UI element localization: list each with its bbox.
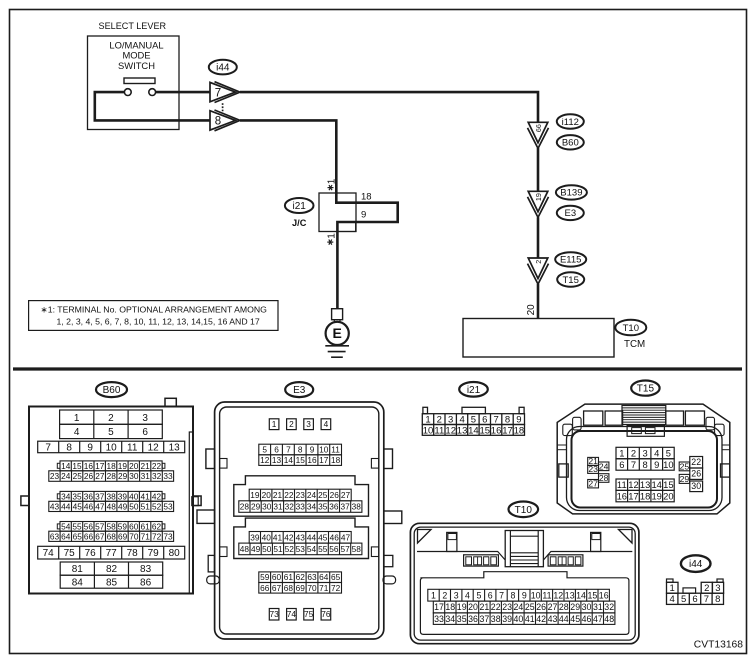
svg-text:55: 55	[318, 544, 328, 554]
svg-text:T15: T15	[637, 384, 655, 395]
svg-text:63: 63	[307, 572, 317, 582]
svg-text:11: 11	[434, 425, 444, 436]
svg-text:4: 4	[74, 427, 80, 438]
svg-text:5: 5	[681, 594, 686, 605]
svg-text:42: 42	[284, 532, 294, 542]
svg-text:74: 74	[43, 548, 55, 559]
svg-text:31: 31	[273, 502, 283, 512]
svg-text:27: 27	[548, 602, 558, 612]
svg-text:26: 26	[536, 602, 546, 612]
svg-text:8: 8	[298, 445, 303, 455]
svg-text:21: 21	[273, 490, 283, 500]
svg-text:10: 10	[663, 459, 673, 470]
svg-text:1: 1	[326, 233, 337, 239]
svg-text:59: 59	[118, 521, 128, 531]
svg-text:70: 70	[307, 583, 317, 593]
svg-text:64: 64	[61, 531, 71, 541]
svg-text:5: 5	[262, 445, 267, 455]
svg-text:7: 7	[499, 590, 504, 600]
svg-text:SELECT LEVER: SELECT LEVER	[99, 21, 167, 31]
svg-text:23: 23	[588, 464, 598, 474]
svg-text:29: 29	[680, 474, 690, 484]
svg-text:8: 8	[715, 594, 720, 605]
svg-text:8: 8	[215, 116, 221, 128]
svg-text:45: 45	[73, 501, 83, 511]
svg-text:4: 4	[465, 590, 470, 600]
svg-text:18: 18	[640, 491, 650, 502]
svg-text:B60: B60	[103, 385, 121, 396]
svg-text:8: 8	[66, 443, 72, 454]
svg-text:24: 24	[307, 490, 317, 500]
svg-text:4: 4	[654, 447, 659, 458]
svg-text:38: 38	[352, 502, 362, 512]
svg-text:20: 20	[262, 490, 272, 500]
svg-text:2: 2	[442, 590, 447, 600]
svg-text:9: 9	[310, 445, 315, 455]
svg-text:17: 17	[95, 461, 105, 471]
svg-text:1: 1	[272, 419, 277, 429]
svg-text:42: 42	[536, 614, 546, 624]
svg-text:57: 57	[95, 521, 105, 531]
svg-text:62: 62	[152, 521, 162, 531]
svg-text:E3: E3	[564, 208, 576, 219]
svg-text:31: 31	[141, 471, 151, 481]
svg-text:39: 39	[250, 532, 260, 542]
svg-text:54: 54	[307, 544, 317, 554]
svg-text:75: 75	[304, 609, 314, 619]
svg-text:34: 34	[307, 502, 317, 512]
svg-text:15: 15	[588, 590, 598, 600]
svg-text:82: 82	[106, 564, 118, 575]
svg-text:43: 43	[548, 614, 558, 624]
svg-text:2: 2	[108, 413, 114, 424]
svg-text:67: 67	[95, 531, 105, 541]
svg-text:J/C: J/C	[292, 218, 307, 228]
svg-text:34: 34	[445, 614, 455, 624]
svg-text:36: 36	[468, 614, 478, 624]
svg-text:47: 47	[95, 501, 105, 511]
svg-text:48: 48	[240, 544, 250, 554]
svg-text:42: 42	[152, 491, 162, 501]
svg-text:TCM: TCM	[624, 339, 645, 350]
svg-text:35: 35	[72, 491, 82, 501]
svg-text:26: 26	[84, 471, 94, 481]
svg-text:41: 41	[525, 614, 535, 624]
svg-text:17: 17	[319, 455, 329, 465]
svg-text:4: 4	[670, 594, 675, 605]
svg-text:12: 12	[628, 479, 638, 490]
svg-text:76: 76	[85, 548, 97, 559]
svg-text:19: 19	[250, 490, 260, 500]
svg-text:50: 50	[129, 501, 139, 511]
svg-text:44: 44	[559, 614, 569, 624]
svg-text:61: 61	[284, 572, 294, 582]
svg-text:10: 10	[531, 590, 541, 600]
svg-text:26: 26	[330, 490, 340, 500]
svg-text:71: 71	[141, 531, 151, 541]
svg-text:22: 22	[152, 461, 162, 471]
svg-text:46: 46	[330, 532, 340, 542]
svg-text:52: 52	[285, 544, 295, 554]
svg-text:25: 25	[680, 461, 690, 471]
svg-text:11: 11	[542, 590, 551, 600]
svg-text:44: 44	[307, 532, 317, 542]
svg-text:3: 3	[306, 419, 311, 429]
svg-text:39: 39	[502, 614, 512, 624]
svg-text:∗1: TERMINAL No. OPTIONAL ARRA: ∗1: TERMINAL No. OPTIONAL ARRANGEMENT AM…	[41, 304, 268, 314]
svg-text:73: 73	[269, 609, 279, 619]
svg-text:B60: B60	[562, 138, 579, 149]
svg-text:18: 18	[361, 192, 372, 203]
svg-text:83: 83	[140, 564, 152, 575]
svg-text:68: 68	[107, 531, 117, 541]
svg-text:6: 6	[619, 459, 624, 470]
svg-text:6: 6	[142, 427, 148, 438]
svg-text:30: 30	[691, 481, 701, 491]
svg-text:3: 3	[642, 447, 647, 458]
svg-text:17: 17	[502, 425, 513, 436]
svg-text:9: 9	[361, 210, 366, 221]
svg-text:2: 2	[704, 583, 709, 594]
svg-text:14: 14	[284, 455, 294, 465]
svg-text:T10: T10	[515, 505, 533, 516]
svg-text:9: 9	[522, 590, 527, 600]
svg-text:22: 22	[284, 490, 294, 500]
svg-text:56: 56	[84, 521, 94, 531]
svg-text:9: 9	[87, 443, 93, 454]
svg-text:32: 32	[285, 502, 295, 512]
svg-text:15: 15	[72, 461, 82, 471]
svg-text:17: 17	[628, 491, 638, 502]
svg-text:1: 1	[619, 447, 624, 458]
svg-text:14: 14	[468, 425, 479, 436]
svg-text:18: 18	[106, 461, 116, 471]
svg-text:71: 71	[319, 583, 329, 593]
svg-text:14: 14	[651, 479, 661, 490]
svg-text:13: 13	[272, 455, 282, 465]
svg-text:44: 44	[61, 501, 71, 511]
svg-text:48: 48	[604, 614, 614, 624]
svg-text:35: 35	[457, 614, 467, 624]
svg-text:32: 32	[604, 602, 614, 612]
svg-text:16: 16	[307, 455, 317, 465]
svg-text:13: 13	[640, 479, 650, 490]
svg-text:14: 14	[61, 461, 71, 471]
svg-text:41: 41	[140, 491, 150, 501]
svg-text:23: 23	[50, 471, 60, 481]
svg-text:3: 3	[454, 590, 459, 600]
svg-text:11: 11	[127, 443, 138, 454]
svg-text:49: 49	[118, 501, 128, 511]
svg-text:37: 37	[480, 614, 490, 624]
svg-text:16: 16	[84, 461, 94, 471]
svg-text:7: 7	[45, 443, 51, 454]
svg-text:50: 50	[262, 544, 272, 554]
svg-text:20: 20	[468, 602, 478, 612]
svg-text:25: 25	[525, 602, 535, 612]
svg-text:28: 28	[107, 471, 117, 481]
svg-text:65: 65	[331, 572, 341, 582]
svg-text:3: 3	[142, 413, 148, 424]
svg-text:38: 38	[491, 614, 501, 624]
svg-text:70: 70	[129, 531, 139, 541]
svg-text:37: 37	[95, 491, 105, 501]
svg-text:13: 13	[169, 443, 181, 454]
svg-text:i44: i44	[216, 63, 230, 74]
svg-text:6: 6	[692, 594, 697, 605]
svg-text:15: 15	[480, 425, 491, 436]
svg-text:28: 28	[240, 502, 250, 512]
svg-text:85: 85	[106, 577, 118, 588]
svg-text:E115: E115	[560, 255, 581, 266]
svg-text:i112: i112	[562, 117, 579, 128]
svg-text:i21: i21	[467, 385, 481, 396]
svg-text:31: 31	[593, 602, 603, 612]
svg-text:47: 47	[593, 614, 603, 624]
svg-text:54: 54	[61, 521, 71, 531]
svg-text:33: 33	[434, 614, 444, 624]
svg-text:25: 25	[318, 490, 328, 500]
svg-text:5: 5	[476, 590, 481, 600]
svg-text:30: 30	[582, 602, 592, 612]
svg-text:24: 24	[514, 602, 524, 612]
svg-text:23: 23	[502, 602, 512, 612]
svg-text:33: 33	[163, 471, 173, 481]
svg-text:i21: i21	[293, 201, 307, 212]
svg-text:6: 6	[488, 590, 493, 600]
svg-text:78: 78	[127, 548, 139, 559]
svg-text:69: 69	[118, 531, 128, 541]
svg-text:7: 7	[631, 459, 636, 470]
svg-text:36: 36	[329, 502, 339, 512]
svg-text:23: 23	[296, 490, 306, 500]
svg-text:61: 61	[140, 521, 150, 531]
svg-text:7: 7	[215, 87, 221, 99]
svg-text:72: 72	[152, 531, 162, 541]
svg-text:13: 13	[565, 590, 575, 600]
svg-text:13: 13	[457, 425, 468, 436]
svg-text:45: 45	[570, 614, 580, 624]
svg-text:T15: T15	[563, 275, 579, 286]
svg-text:80: 80	[169, 548, 181, 559]
svg-text:1: 1	[670, 583, 675, 594]
svg-text:10: 10	[106, 443, 118, 454]
svg-text:i44: i44	[689, 559, 703, 570]
svg-text:12: 12	[260, 455, 270, 465]
svg-text:55: 55	[72, 521, 82, 531]
svg-text:77: 77	[106, 548, 118, 559]
svg-text:16: 16	[599, 590, 609, 600]
svg-text:68: 68	[284, 583, 294, 593]
svg-text:11: 11	[331, 445, 340, 455]
svg-text:17: 17	[434, 602, 444, 612]
svg-text:53: 53	[296, 544, 306, 554]
svg-text:18: 18	[331, 455, 341, 465]
svg-text:28: 28	[599, 473, 609, 483]
svg-text:30: 30	[129, 471, 139, 481]
svg-text:52: 52	[152, 501, 162, 511]
svg-text:CVT13168: CVT13168	[694, 639, 744, 650]
svg-text:26: 26	[691, 469, 701, 479]
svg-text:29: 29	[570, 602, 580, 612]
svg-text:20: 20	[526, 304, 537, 316]
svg-text:1, 2, 3, 4, 5, 6, 7, 8, 10, 11: 1, 2, 3, 4, 5, 6, 7, 8, 10, 11, 12, 13, …	[57, 316, 260, 326]
svg-text:51: 51	[141, 501, 151, 511]
svg-text:39: 39	[118, 491, 128, 501]
svg-text:76: 76	[321, 609, 331, 619]
svg-text:25: 25	[73, 471, 83, 481]
svg-text:15: 15	[296, 455, 306, 465]
svg-text:51: 51	[273, 544, 283, 554]
svg-text:12: 12	[148, 443, 160, 454]
svg-text:21: 21	[480, 602, 490, 612]
svg-text:3: 3	[715, 583, 720, 594]
svg-text:81: 81	[72, 564, 84, 575]
svg-text:38: 38	[106, 491, 116, 501]
svg-text:16: 16	[491, 425, 502, 436]
svg-text:22: 22	[491, 602, 501, 612]
svg-text:2: 2	[534, 260, 543, 264]
svg-text:19: 19	[457, 602, 467, 612]
svg-text:65: 65	[73, 531, 83, 541]
svg-text:6: 6	[274, 445, 279, 455]
svg-text:66: 66	[84, 531, 94, 541]
svg-text:66: 66	[260, 583, 270, 593]
svg-text:33: 33	[296, 502, 306, 512]
svg-text:1: 1	[74, 413, 80, 424]
svg-text:19: 19	[534, 193, 543, 201]
svg-text:45: 45	[318, 532, 328, 542]
svg-text:47: 47	[341, 532, 351, 542]
svg-text:62: 62	[296, 572, 306, 582]
svg-text:SWITCH: SWITCH	[118, 60, 155, 71]
svg-text:34: 34	[61, 491, 71, 501]
svg-text:1: 1	[326, 178, 337, 184]
svg-text:37: 37	[340, 502, 350, 512]
svg-text:20: 20	[129, 461, 139, 471]
svg-text:27: 27	[341, 490, 351, 500]
svg-text:14: 14	[576, 590, 586, 600]
svg-text:8: 8	[510, 590, 515, 600]
svg-text:60: 60	[272, 572, 282, 582]
svg-text:40: 40	[262, 532, 272, 542]
svg-text:12: 12	[445, 425, 456, 436]
svg-text:E3: E3	[293, 385, 306, 396]
svg-text:74: 74	[287, 609, 297, 619]
svg-text:36: 36	[84, 491, 94, 501]
svg-text:15: 15	[663, 479, 673, 490]
svg-text:27: 27	[95, 471, 105, 481]
svg-text:7: 7	[704, 594, 709, 605]
svg-text:43: 43	[50, 501, 60, 511]
svg-text:46: 46	[582, 614, 592, 624]
svg-text:32: 32	[152, 471, 162, 481]
svg-text:24: 24	[599, 461, 609, 471]
svg-text:20: 20	[663, 491, 673, 502]
svg-text:16: 16	[617, 491, 627, 502]
svg-text:19: 19	[118, 461, 128, 471]
svg-text:2: 2	[289, 419, 294, 429]
svg-text:63: 63	[50, 531, 60, 541]
svg-text:5: 5	[666, 447, 671, 458]
svg-text:29: 29	[251, 502, 261, 512]
svg-text:66: 66	[534, 124, 543, 132]
svg-text:19: 19	[651, 491, 661, 502]
svg-text:75: 75	[64, 548, 76, 559]
svg-text:59: 59	[260, 572, 270, 582]
svg-text:12: 12	[553, 590, 563, 600]
svg-text:40: 40	[129, 491, 139, 501]
svg-text:58: 58	[106, 521, 116, 531]
svg-text:8: 8	[642, 459, 647, 470]
svg-text:46: 46	[84, 501, 94, 511]
svg-text:60: 60	[129, 521, 139, 531]
svg-text:T10: T10	[623, 323, 639, 334]
svg-text:7: 7	[286, 445, 291, 455]
svg-text:35: 35	[318, 502, 328, 512]
svg-text:18: 18	[445, 602, 455, 612]
svg-text:10: 10	[423, 425, 434, 436]
svg-text:72: 72	[331, 583, 341, 593]
svg-text:4: 4	[324, 419, 329, 429]
svg-text:53: 53	[163, 501, 173, 511]
svg-text:43: 43	[296, 532, 306, 542]
svg-text:57: 57	[340, 544, 350, 554]
svg-text:24: 24	[61, 471, 71, 481]
svg-text:18: 18	[514, 425, 525, 436]
svg-text:67: 67	[272, 583, 282, 593]
svg-text:2: 2	[631, 447, 636, 458]
svg-text:5: 5	[108, 427, 114, 438]
svg-text:10: 10	[319, 445, 329, 455]
svg-text:1: 1	[431, 590, 436, 600]
svg-text:56: 56	[329, 544, 339, 554]
svg-text:48: 48	[107, 501, 117, 511]
svg-text:64: 64	[319, 572, 329, 582]
svg-text:49: 49	[251, 544, 261, 554]
svg-text:73: 73	[163, 531, 173, 541]
svg-text:79: 79	[148, 548, 160, 559]
svg-text:29: 29	[118, 471, 128, 481]
svg-text:84: 84	[72, 577, 84, 588]
svg-text:41: 41	[273, 532, 283, 542]
svg-text:69: 69	[296, 583, 306, 593]
svg-text:E: E	[333, 325, 342, 341]
svg-text:9: 9	[654, 459, 659, 470]
svg-text:21: 21	[140, 461, 150, 471]
svg-text:22: 22	[691, 457, 701, 467]
svg-text:58: 58	[352, 544, 362, 554]
svg-text:40: 40	[514, 614, 524, 624]
svg-text:28: 28	[559, 602, 569, 612]
svg-text:11: 11	[617, 479, 627, 490]
svg-text:30: 30	[262, 502, 272, 512]
svg-text:27: 27	[588, 479, 598, 489]
svg-text:B139: B139	[560, 188, 582, 199]
svg-text:86: 86	[140, 577, 152, 588]
